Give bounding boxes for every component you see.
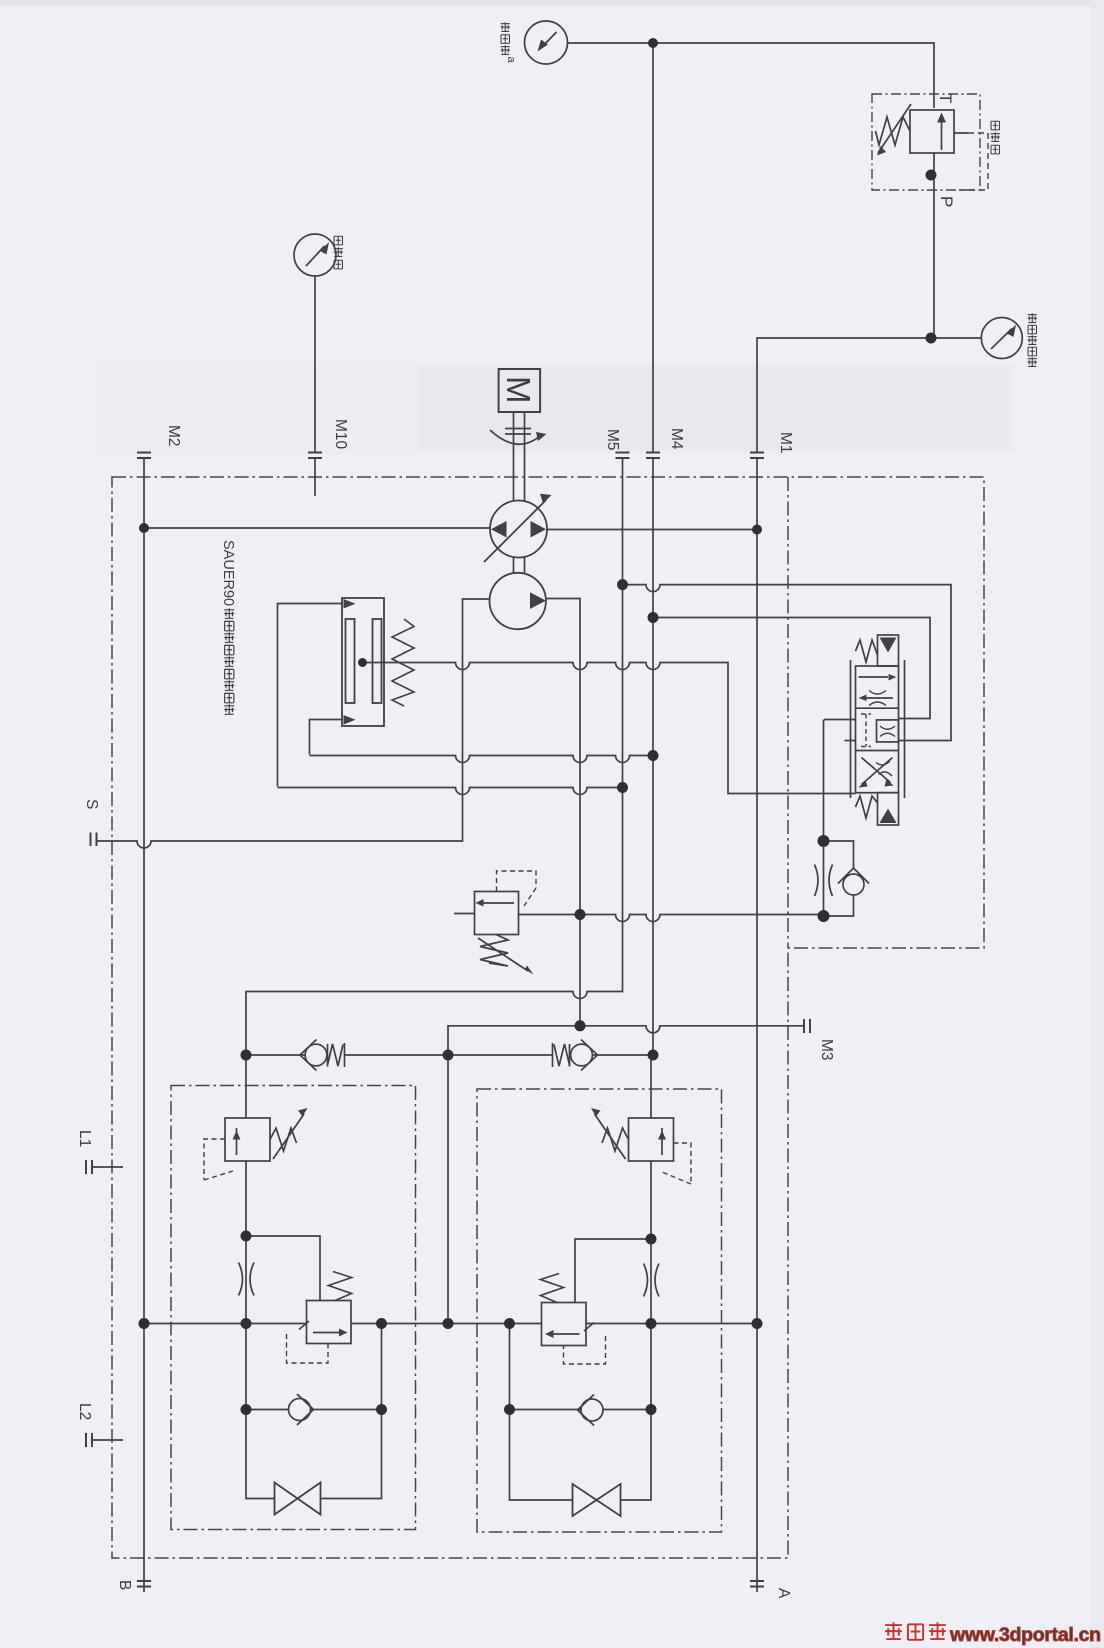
svg-text:M3: M3: [818, 1039, 835, 1061]
svg-text:M2: M2: [165, 425, 182, 447]
svg-text:T: T: [936, 93, 955, 103]
svg-text:L1: L1: [76, 1130, 93, 1147]
svg-text:S: S: [83, 799, 100, 809]
svg-text:M4: M4: [668, 428, 685, 450]
svg-text:A: A: [775, 1588, 792, 1599]
svg-text:B: B: [116, 1580, 133, 1590]
svg-text:M10: M10: [332, 419, 349, 450]
svg-text:M5: M5: [604, 429, 621, 451]
svg-text:L2: L2: [76, 1403, 93, 1420]
svg-text:SAUER90: SAUER90: [220, 540, 236, 606]
svg-text:P: P: [937, 196, 956, 207]
svg-text:a: a: [505, 57, 517, 64]
svg-text:www.3dportal.cn: www.3dportal.cn: [949, 1624, 1101, 1646]
svg-text:M: M: [500, 376, 537, 404]
svg-text:M1: M1: [777, 432, 794, 454]
